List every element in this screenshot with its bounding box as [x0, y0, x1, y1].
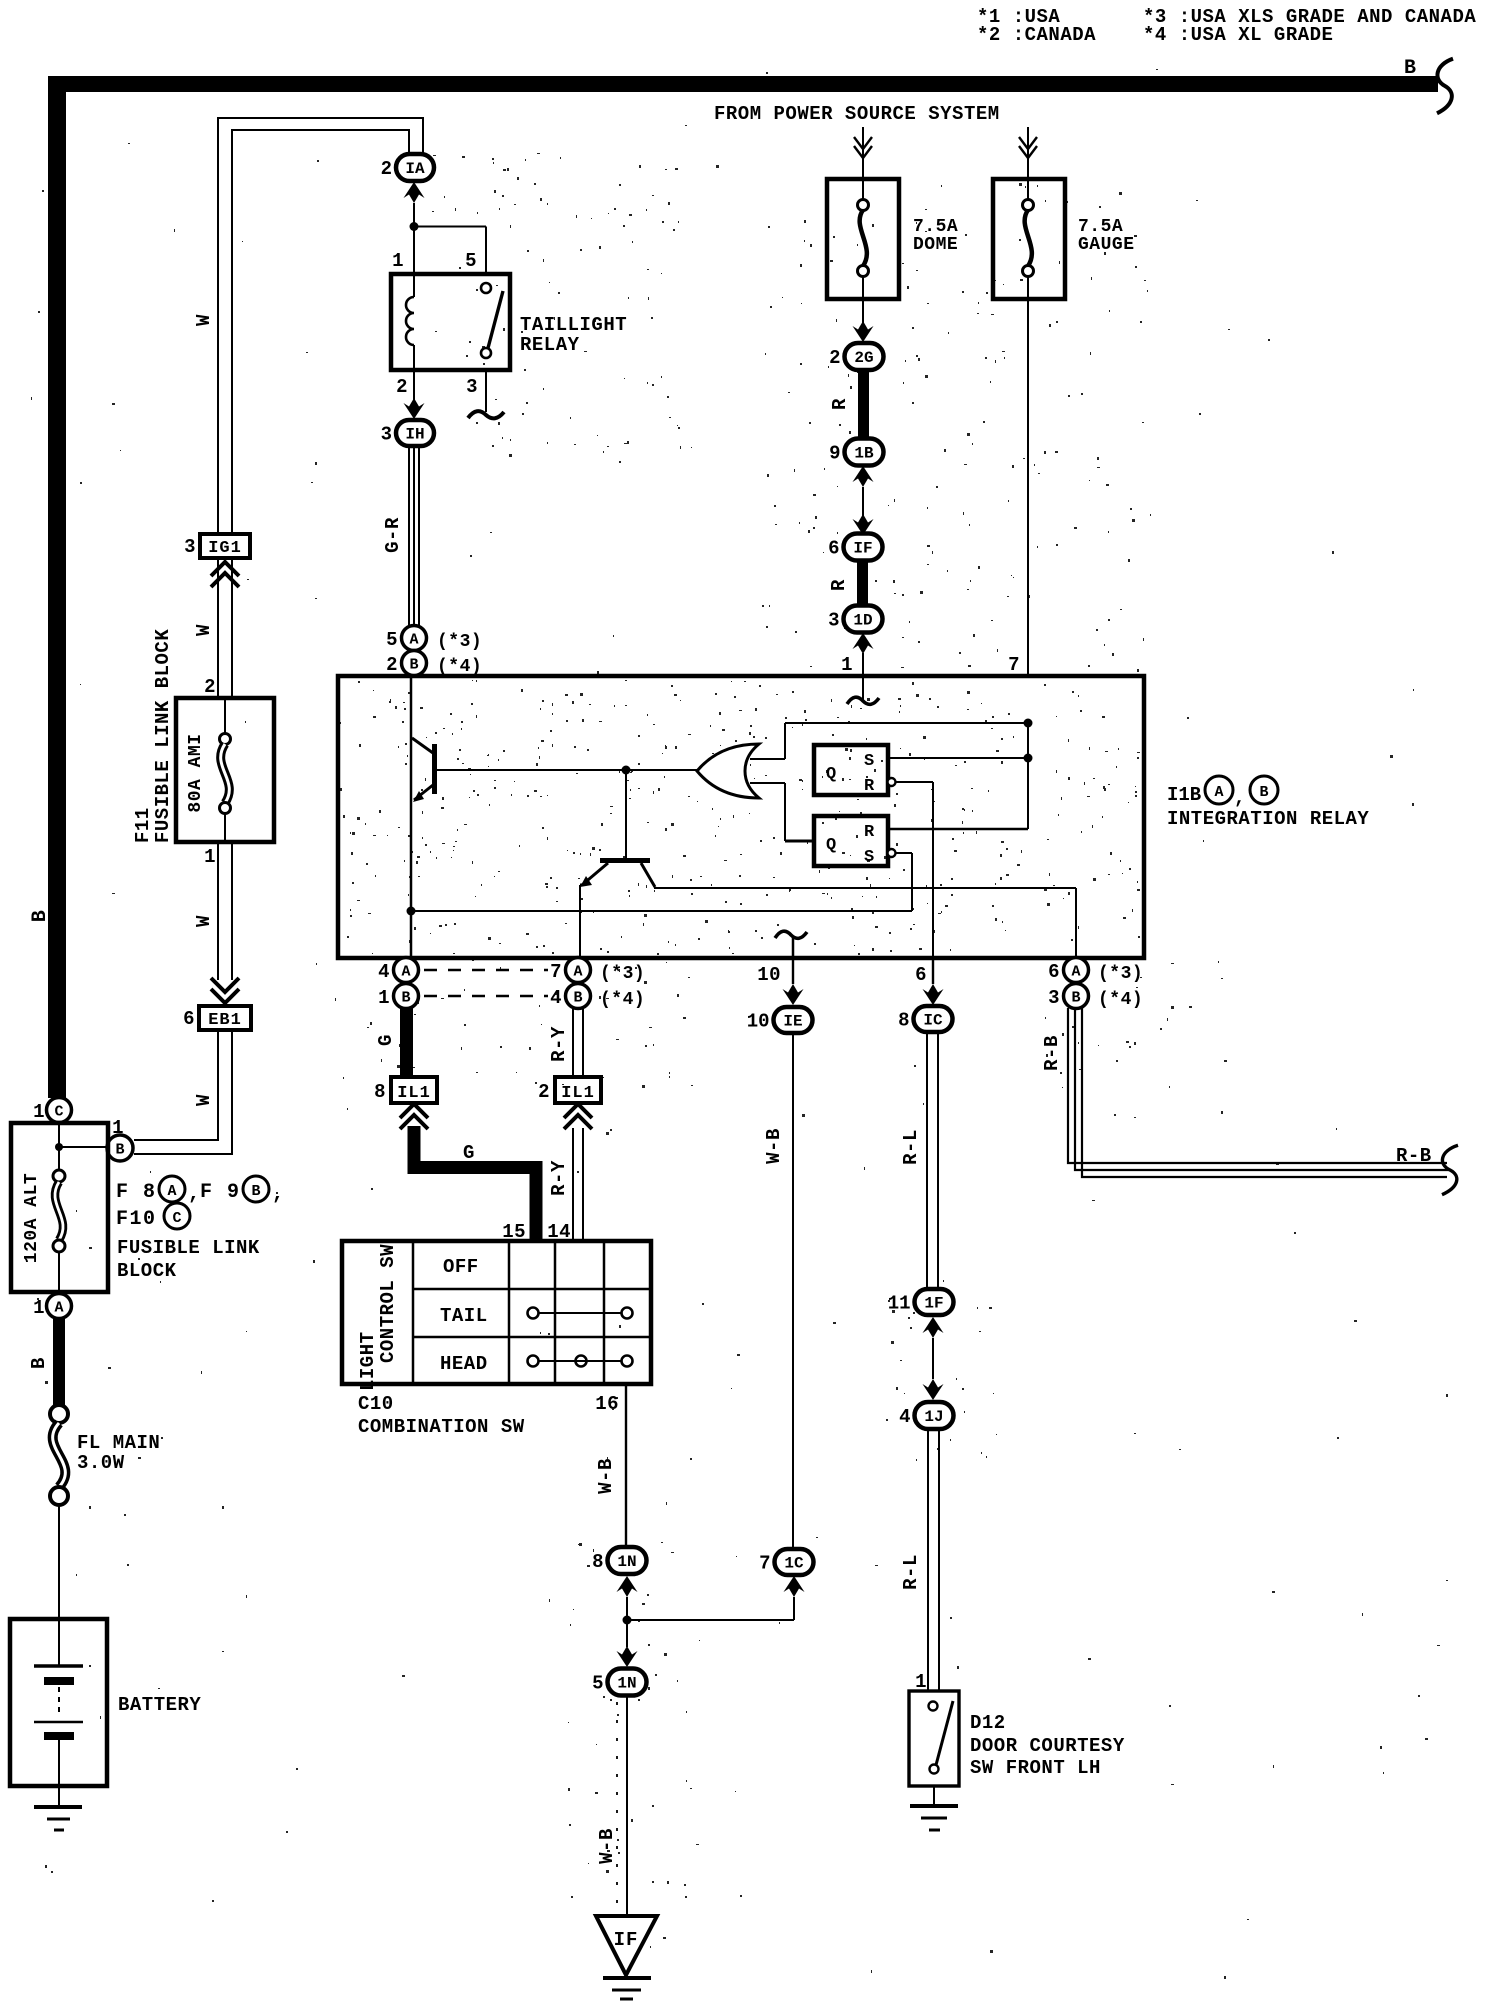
svg-text:11: 11 [888, 1293, 911, 1315]
svg-text:1: 1 [841, 654, 853, 676]
wire break symbol right end of B bus [1437, 59, 1453, 114]
junction node S net [1024, 754, 1033, 763]
D12 DOOR COURTESY SW FRONT LH label [970, 1712, 1125, 1779]
svg-text:10: 10 [747, 1011, 770, 1033]
svg-text:C: C [172, 1210, 181, 1227]
svg-text:10: 10 [757, 964, 781, 986]
fusible link block F11 box [176, 698, 274, 842]
svg-text:S: S [864, 752, 874, 771]
svg-text:F 8: F 8 [116, 1181, 157, 1204]
pin 1 label F11 [204, 846, 216, 868]
junction node pin7 net [1024, 719, 1033, 728]
dashed link 4A-7A [424, 969, 548, 972]
wire B main bus (thick) from power source [48, 76, 1438, 1098]
wire label W-B [595, 1458, 617, 1494]
transistor Q1 (PNP) [412, 738, 437, 802]
svg-text:FROM POWER SOURCE SYSTEM: FROM POWER SOURCE SYSTEM [714, 103, 1000, 125]
svg-text:120A ALT: 120A ALT [22, 1173, 42, 1263]
svg-text:A: A [401, 964, 410, 981]
wire W-B switch pin 16 down to 1N [625, 1384, 627, 1547]
wire W double line F11 to EB1 [218, 842, 232, 980]
svg-text:A: A [167, 1183, 176, 1200]
svg-text:R-B: R-B [1396, 1145, 1432, 1167]
svg-text:(*4): (*4) [600, 990, 645, 1010]
fusible link 80A AMI lower parts [186, 733, 231, 842]
svg-text:R-L: R-L [900, 1554, 922, 1590]
relay coil [406, 274, 414, 370]
svg-text:7.5A: 7.5A [1078, 217, 1123, 237]
pin 1(B) circle fusible link block [107, 1117, 133, 1161]
node B label on left bus [29, 910, 52, 923]
wire feed to GAUGE fuse with arrow [1019, 127, 1037, 179]
connector 2(IA) [381, 154, 434, 181]
connector 4(1J) [899, 1402, 953, 1429]
wire junction to relay pin 5 [414, 227, 486, 275]
svg-text:1: 1 [33, 1101, 45, 1123]
wire DOME fuse to connector 2G [853, 299, 874, 342]
wire relay pin 3 stub with break squiggle [468, 370, 504, 418]
component label I1B(A),(B) INTEGRATION RELAY [1167, 776, 1369, 830]
junction node on internal wire [407, 907, 416, 916]
svg-text:G: G [375, 1034, 397, 1046]
svg-text:W: W [193, 915, 215, 927]
FROM POWER SOURCE SYSTEM label [714, 103, 1000, 125]
pin 2 label F11 [204, 676, 216, 698]
HEAD row label and contacts [440, 1353, 633, 1375]
pin 1(C) circle fusible link block [33, 1098, 71, 1124]
svg-text:LIGHT: LIGHT [357, 1331, 379, 1391]
junction node below IA [410, 222, 419, 231]
svg-text:F 9: F 9 [200, 1181, 241, 1204]
svg-text:S: S [864, 848, 874, 867]
svg-text:1: 1 [204, 846, 216, 868]
wire FL MAIN to battery [58, 1505, 60, 1619]
svg-text:4: 4 [899, 1406, 910, 1428]
svg-text:2: 2 [386, 654, 398, 676]
junction node base/Q2 [622, 766, 631, 775]
relay pin labels 2 and 3 [396, 376, 478, 398]
svg-text:B: B [409, 657, 418, 674]
connector 8(IC) [898, 1006, 952, 1032]
svg-text:(*3): (*3) [600, 964, 645, 984]
wire R-Y double line IL1 to switch pin 14 [573, 1128, 583, 1241]
node B label top right [1404, 57, 1417, 80]
svg-text:IF: IF [853, 540, 872, 558]
pin 16 label [595, 1393, 619, 1415]
svg-text:A: A [54, 1300, 63, 1317]
svg-text:3.0W: 3.0W [77, 1452, 125, 1474]
light control switch box C10 [342, 1241, 651, 1384]
svg-text:DOOR COURTESY: DOOR COURTESY [970, 1735, 1125, 1757]
svg-text:IF: IF [614, 1929, 639, 1951]
svg-text:80A AMI: 80A AMI [186, 733, 206, 812]
svg-text:C10: C10 [358, 1393, 394, 1415]
svg-text:B: B [29, 910, 52, 923]
wire label R-B vertical [1041, 1035, 1063, 1071]
svg-text:DOME: DOME [913, 235, 958, 255]
svg-text:TAILLIGHT: TAILLIGHT [520, 314, 627, 336]
svg-text:FUSIBLE LINK BLOCK: FUSIBLE LINK BLOCK [152, 629, 174, 843]
wire W double line EB1 to fusible link block pin B [134, 1030, 232, 1154]
connector 3(1D) [828, 606, 882, 633]
wire W double-line loop from IG1 up and over to connector IA [218, 118, 423, 534]
svg-text:IL1: IL1 [561, 1084, 595, 1103]
svg-text:W-B: W-B [595, 1458, 617, 1494]
connector 11(1F) [888, 1289, 954, 1315]
svg-text:C: C [54, 1104, 63, 1121]
svg-text:2: 2 [396, 376, 408, 398]
wire R (thick) IF to 1D [857, 560, 868, 607]
taillight relay box [391, 274, 510, 370]
pin 4(A) circle [378, 958, 418, 984]
svg-text:BLOCK: BLOCK [117, 1260, 177, 1282]
svg-text:FL MAIN: FL MAIN [77, 1432, 160, 1454]
pin 2(B)(*4) circle [386, 651, 482, 678]
wire G thick 1B to IL1 [400, 1008, 413, 1077]
svg-text:OFF: OFF [443, 1256, 479, 1278]
F11 FUSIBLE LINK BLOCK label [132, 629, 174, 843]
svg-text:CONTROL SW: CONTROL SW [377, 1244, 399, 1363]
wire Q2 emitter down to pin 7A [579, 885, 581, 958]
ground triangle IF [596, 1916, 657, 1975]
pin 7 label [1008, 654, 1020, 676]
wire G thick IL1 to switch pin 15 [408, 1126, 543, 1241]
svg-text:5: 5 [465, 250, 477, 272]
svg-text:1D: 1D [853, 612, 872, 630]
svg-text:7: 7 [550, 961, 562, 983]
wire stub pin1 inside relay with break squiggle [847, 676, 879, 704]
pin 14 label [547, 1221, 571, 1243]
junction node W-B [623, 1616, 632, 1625]
fusible link block 120A ALT box [11, 1123, 108, 1292]
svg-text:COMBINATION SW: COMBINATION SW [358, 1416, 525, 1438]
connector 3(IH) [381, 420, 434, 446]
wire label W [193, 314, 215, 326]
svg-text:GAUGE: GAUGE [1078, 235, 1135, 255]
wire label W-B [763, 1128, 785, 1164]
svg-text:A: A [409, 632, 418, 649]
svg-text:IL1: IL1 [397, 1084, 431, 1103]
ground door switch [910, 1786, 958, 1830]
svg-text:D12: D12 [970, 1712, 1006, 1734]
wire pin7 net down to U3 R [888, 723, 1028, 829]
wire label W [193, 1094, 215, 1106]
svg-text:BATTERY: BATTERY [118, 1694, 201, 1716]
svg-text:EB1: EB1 [208, 1011, 242, 1030]
svg-text:3: 3 [466, 376, 478, 398]
wire label W-B [596, 1828, 618, 1864]
wire label W [193, 624, 215, 636]
svg-text:SW FRONT LH: SW FRONT LH [970, 1757, 1101, 1779]
or-gate U1 [697, 744, 759, 798]
svg-text:,: , [188, 1183, 201, 1206]
svg-text:3: 3 [1048, 987, 1060, 1009]
svg-text:INTEGRATION RELAY: INTEGRATION RELAY [1167, 808, 1369, 830]
svg-text:6: 6 [828, 538, 839, 560]
svg-text:2: 2 [381, 158, 392, 180]
svg-text:5: 5 [386, 629, 398, 651]
wire R-Y double line 4B to IL1 [573, 1008, 583, 1077]
svg-text:IG1: IG1 [208, 539, 242, 558]
flip-flop U2 (Q S R) [814, 745, 888, 796]
pin 1 label [841, 654, 853, 676]
pin 5(A)(*3) circle [386, 626, 482, 653]
wire relay pin 2 to IH [404, 370, 425, 419]
svg-text:W: W [193, 314, 215, 326]
wire label W [193, 915, 215, 927]
wire OR input bottom to flip-flop 2 input [750, 783, 814, 841]
svg-text:Q: Q [826, 836, 836, 855]
svg-text:1C: 1C [784, 1555, 804, 1573]
svg-text:R: R [829, 398, 851, 410]
svg-text:B: B [1071, 990, 1080, 1007]
connector 2[IL1] [538, 1077, 601, 1103]
ground lines under IF [603, 1978, 651, 1999]
wire W double line IG1 to F11 [218, 558, 232, 698]
svg-text:(*4): (*4) [437, 657, 482, 677]
svg-text:5: 5 [592, 1673, 603, 1695]
connector 6(IF) [828, 534, 882, 561]
svg-text:IA: IA [405, 160, 425, 178]
svg-text:FUSIBLE LINK: FUSIBLE LINK [117, 1237, 260, 1259]
pin 15 label [502, 1221, 526, 1243]
annotation F8(A),F9(B),F10(C) FUSIBLE LINK BLOCK [116, 1176, 285, 1282]
wire label R-Y [548, 1160, 570, 1196]
wire G-R (triple line) IH to pin 5A [409, 446, 419, 626]
svg-text:1F: 1F [924, 1295, 943, 1313]
svg-text:HEAD: HEAD [440, 1353, 488, 1375]
connector 7(1C) [759, 1549, 813, 1575]
wire label R-Y [548, 1026, 570, 1062]
svg-text:B: B [115, 1142, 124, 1159]
svg-text:B: B [251, 1183, 260, 1200]
connector 8[IL1] [374, 1077, 437, 1103]
wire 1D to integration relay pin 1 [853, 633, 874, 676]
svg-text:1: 1 [392, 250, 404, 272]
svg-text:1N: 1N [617, 1553, 636, 1571]
svg-text:*2 :CANADA: *2 :CANADA [977, 24, 1096, 46]
pin 3(B)(*4) circle [1048, 984, 1143, 1011]
svg-text:1B: 1B [854, 445, 874, 463]
connector 3[IG1] [184, 534, 250, 558]
U3 S inverter circle and wire to left net [411, 849, 912, 911]
svg-text:B: B [1259, 784, 1268, 801]
svg-text:R-L: R-L [900, 1129, 922, 1165]
wire stub pin10 with break squiggle [775, 931, 807, 958]
svg-text:2G: 2G [854, 349, 873, 367]
svg-text:F10: F10 [116, 1208, 157, 1231]
pin 1 label door switch [915, 1671, 927, 1693]
battery [10, 1619, 201, 1786]
wire break symbol R-B right end [1442, 1145, 1458, 1194]
svg-text:A: A [1071, 964, 1080, 981]
svg-text:1J: 1J [924, 1408, 943, 1426]
svg-text:A: A [1214, 784, 1223, 801]
wire Q2 collector to pin 6A [654, 888, 1076, 958]
svg-text:R: R [864, 777, 875, 796]
internal wires and junction [55, 1122, 107, 1170]
wire pin 2B down through relay to pin 4A (internal) [410, 676, 413, 958]
svg-text:16: 16 [595, 1393, 619, 1415]
svg-text:6: 6 [183, 1008, 195, 1030]
transistor Q2 (NPN) [580, 858, 655, 887]
wire 1N to junction [617, 1576, 638, 1647]
svg-text:7.5A: 7.5A [913, 217, 958, 237]
svg-text:3: 3 [184, 536, 196, 558]
svg-text:8: 8 [592, 1551, 603, 1573]
relay switch contact [481, 283, 503, 358]
svg-text:(*4): (*4) [1098, 990, 1143, 1010]
svg-text:Q: Q [826, 765, 836, 784]
svg-text:R-Y: R-Y [548, 1026, 570, 1062]
svg-text:W-B: W-B [596, 1828, 618, 1864]
svg-text:R: R [828, 579, 850, 591]
svg-text:(*3): (*3) [437, 632, 482, 652]
fusible link FL MAIN 3.0W [50, 1405, 160, 1505]
svg-text:RELAY: RELAY [520, 334, 580, 356]
svg-text:7: 7 [759, 1553, 770, 1575]
chevron arrow below right IL1 [564, 1104, 592, 1129]
LIGHT CONTROL SW rotated label [357, 1244, 399, 1391]
wire label R-L [900, 1129, 922, 1165]
svg-text:IC: IC [923, 1012, 943, 1030]
svg-text:B: B [28, 1357, 50, 1369]
wire label R [829, 398, 851, 410]
connector 8(1N) [592, 1547, 646, 1574]
svg-text:4: 4 [550, 987, 562, 1009]
chevron arrow into EB1 [211, 978, 239, 1003]
svg-text:F11: F11 [132, 807, 154, 843]
pin 4(B)(*4) circle [550, 984, 645, 1011]
svg-text:3: 3 [381, 424, 392, 446]
svg-text:2: 2 [204, 676, 216, 698]
svg-text:W: W [193, 624, 215, 636]
TAILLIGHT RELAY label [520, 314, 627, 356]
svg-text:1: 1 [33, 1297, 45, 1319]
C10 COMBINATION SW label [358, 1393, 525, 1438]
chevron arrow below IG1 [211, 562, 239, 587]
svg-text:2: 2 [538, 1081, 550, 1103]
wire 1F to 1J with arrows [923, 1317, 944, 1400]
wire junction down to Q2 base [625, 770, 627, 858]
TAIL row label and contacts [440, 1305, 633, 1327]
svg-text:,: , [1234, 787, 1246, 809]
svg-text:R-B: R-B [1041, 1035, 1063, 1071]
pin 1(B) circle [378, 984, 418, 1010]
wire B thick A to FL MAIN [53, 1318, 65, 1406]
door courtesy switch D12 [909, 1691, 959, 1786]
fuse 7.5A GAUGE [993, 179, 1135, 299]
wire OR input top to pin7 net [750, 723, 1028, 759]
svg-text:A: A [573, 964, 582, 981]
fusible link 120A ALT [22, 1170, 65, 1292]
wire W-B 1N to ground IF [617, 1695, 627, 1916]
wire R-L double line 1J to door switch [928, 1430, 939, 1691]
svg-text:9: 9 [829, 443, 840, 465]
pin 10 label [757, 964, 781, 986]
svg-text:B: B [1404, 57, 1417, 80]
wire feed to DOME fuse with arrow [854, 127, 872, 179]
pin 6(A)(*3) circle [1048, 958, 1143, 985]
svg-text:7: 7 [1008, 654, 1020, 676]
wire label B [28, 1357, 50, 1369]
ground battery [34, 1786, 82, 1830]
svg-text:8: 8 [898, 1010, 909, 1032]
svg-text:R: R [864, 823, 875, 842]
wire relay pin 6 to IC [923, 958, 944, 1005]
svg-text:B: B [401, 990, 410, 1007]
wire R-B triple line 3B to right edge [1068, 1008, 1450, 1177]
wire 1B to IF with arrows [853, 466, 874, 535]
pin 1(A) circle [33, 1294, 71, 1320]
svg-text:1: 1 [378, 987, 390, 1009]
connector 10(IE) [747, 1007, 813, 1033]
wire arrow into IA and down to relay [404, 182, 425, 274]
OFF row label [443, 1256, 479, 1278]
svg-text:(*3): (*3) [1098, 964, 1143, 984]
svg-text:IH: IH [405, 426, 424, 444]
svg-text:4: 4 [378, 961, 390, 983]
dashed link 1B-4B [424, 995, 548, 998]
legend *1/*2/*3/*4 [977, 6, 1476, 46]
wire GAUGE fuse down to integration relay pin 7 [1027, 299, 1029, 676]
svg-text:W-B: W-B [763, 1128, 785, 1164]
connector 9(1B) [829, 439, 883, 466]
svg-text:G: G [463, 1142, 475, 1164]
wire label R-B horizontal [1396, 1145, 1432, 1167]
U2 R inverter circle and wire to pin 6 [888, 778, 934, 958]
svg-text:8: 8 [374, 1081, 386, 1103]
wire Q1 base to OR gate output [437, 769, 697, 771]
wire R-L double line IC to 1F [927, 1032, 938, 1289]
connector 5(1N) [592, 1669, 646, 1696]
svg-text:1N: 1N [617, 1675, 636, 1693]
connector 2(2G) [829, 343, 883, 370]
wire relay pin 10 to IE [783, 958, 804, 1005]
wire label R [828, 579, 850, 591]
wire label R-L [900, 1554, 922, 1590]
svg-text:B: B [573, 990, 582, 1007]
fuse 7.5A DOME [827, 179, 958, 299]
svg-text:,: , [272, 1183, 285, 1206]
integration relay box I1B [338, 676, 1144, 958]
svg-text:2: 2 [829, 347, 840, 369]
svg-text:TAIL: TAIL [440, 1305, 488, 1327]
flip-flop U3 (Q R S) [814, 816, 888, 867]
wire junction to connector 1C [627, 1576, 805, 1620]
svg-text:6: 6 [1048, 961, 1060, 983]
svg-text:W: W [193, 1094, 215, 1106]
wire R (thick) 2G to 1B [858, 369, 869, 440]
connector arrow into 5(1N) [617, 1646, 638, 1667]
wire U2 S to pin7 net [888, 757, 1028, 759]
svg-text:6: 6 [915, 964, 927, 986]
relay pin labels 1 and 5 [392, 250, 477, 272]
pin 7(A)(*3) circle [550, 958, 645, 985]
wire label G-R [382, 517, 404, 553]
connector 6[EB1] [183, 1006, 251, 1030]
svg-text:IE: IE [783, 1013, 802, 1031]
wire label G [463, 1142, 475, 1164]
svg-text:I1B: I1B [1167, 784, 1201, 806]
fusible link 80A AMI [220, 698, 231, 803]
wire W-B from 10(IE) down to 1C [792, 1032, 794, 1549]
svg-text:1: 1 [112, 1117, 124, 1139]
svg-text:3: 3 [828, 610, 839, 632]
wire label G [375, 1034, 397, 1046]
svg-text:R-Y: R-Y [548, 1160, 570, 1196]
svg-text:*4 :USA XL GRADE: *4 :USA XL GRADE [1143, 24, 1333, 46]
